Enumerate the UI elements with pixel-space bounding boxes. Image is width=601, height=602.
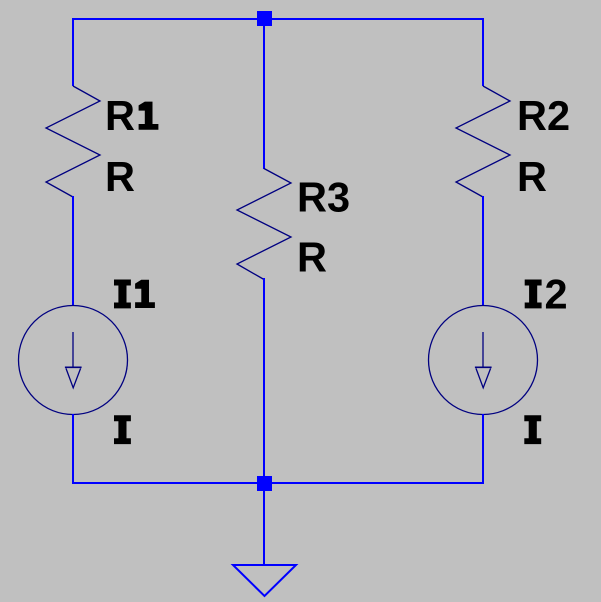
svg-text:R: R: [297, 234, 327, 281]
node 0 bottom junction: [257, 476, 272, 491]
svg-text:R2: R2: [517, 92, 570, 139]
wire top horizontal N001: [72, 18, 484, 20]
svg-text:2: 2: [545, 270, 568, 317]
current source I2: [429, 306, 538, 415]
svg-text:R: R: [105, 92, 135, 139]
wire right branch lower (I2 to bottom rail): [482, 414, 484, 484]
wire right branch upper (top rail to R2): [482, 18, 484, 86]
svg-text:R: R: [105, 153, 135, 200]
current source I1: [19, 306, 128, 415]
label I2 value I: [524, 415, 541, 444]
wire middle branch lower (R3 to ground node): [263, 278, 265, 484]
resistor R2: [456, 86, 510, 197]
label R1 name: [105, 92, 158, 139]
label I1 name: [114, 280, 155, 309]
resistor R3: [237, 169, 291, 280]
ground symbol: [233, 565, 296, 596]
svg-text:R3: R3: [297, 174, 350, 221]
label I1 value I: [114, 415, 131, 444]
wire left branch upper (top rail to R1): [72, 18, 74, 86]
svg-text:R: R: [517, 153, 547, 200]
wire bottom horizontal node 0: [72, 482, 484, 484]
wire middle branch upper (top junction to R3): [263, 18, 265, 169]
wire left branch middle (R1 to I1): [72, 196, 74, 306]
wire ground stub: [263, 484, 265, 565]
label I2 name: [525, 270, 568, 317]
resistor R1: [46, 86, 100, 197]
wire left branch lower (I1 to bottom rail): [72, 414, 74, 484]
wire right branch middle (R2 to I2): [482, 196, 484, 306]
node N001 top junction: [257, 11, 272, 26]
